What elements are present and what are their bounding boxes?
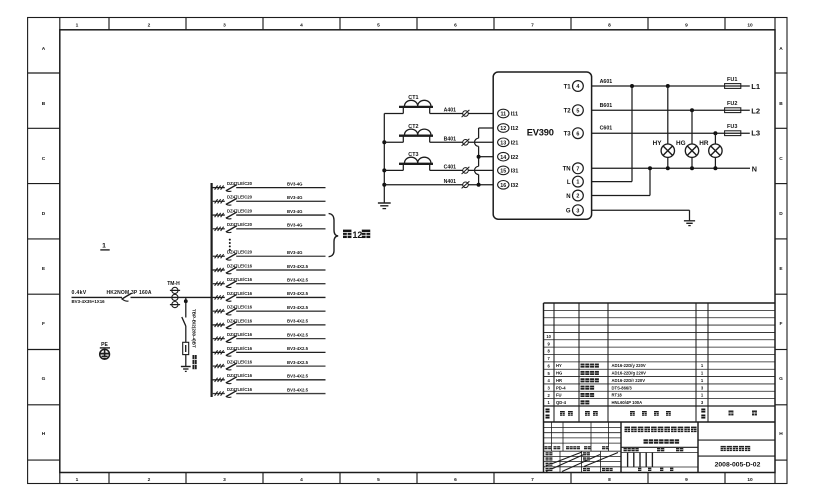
breaker QF4 blade bbox=[226, 226, 237, 233]
label arrester type (rotated) bbox=[192, 309, 197, 369]
svg-text:H: H bbox=[42, 431, 46, 437]
ground CT bus bbox=[378, 203, 391, 209]
wire feeder row 13 bbox=[212, 365, 326, 367]
pin 15 I31 bbox=[498, 166, 519, 175]
fuse FU2 bbox=[725, 101, 741, 113]
svg-text:I32: I32 bbox=[511, 183, 519, 189]
label cable row 7 bbox=[287, 278, 309, 283]
breaker QF5 blade bbox=[226, 253, 237, 260]
label N out bbox=[752, 164, 757, 173]
svg-text:4: 4 bbox=[576, 84, 579, 90]
svg-text:A: A bbox=[779, 46, 783, 52]
current transformer CT1 winding bbox=[405, 100, 431, 106]
svg-text:12: 12 bbox=[500, 126, 506, 132]
svg-text:9: 9 bbox=[685, 477, 688, 483]
svg-text:FU2: FU2 bbox=[727, 101, 737, 107]
svg-text:A: A bbox=[42, 46, 46, 52]
svg-text:DZ47LE/C16: DZ47LE/C16 bbox=[227, 305, 253, 310]
label breaker QF10 bbox=[227, 318, 253, 323]
svg-text:DZ47LE/C16: DZ47LE/C16 bbox=[227, 291, 253, 296]
svg-text:3: 3 bbox=[576, 208, 579, 214]
svg-text:8: 8 bbox=[608, 477, 611, 483]
wire CT common bus left bbox=[383, 114, 385, 203]
label cable row 14 bbox=[287, 374, 309, 379]
breaker QF15 blade bbox=[226, 391, 237, 398]
svg-text:DZ47LE/C16: DZ47LE/C16 bbox=[227, 318, 253, 323]
revision header tiny text bbox=[545, 446, 609, 449]
label C401 bbox=[444, 165, 457, 171]
node arrester tap bbox=[184, 299, 188, 303]
svg-text:3: 3 bbox=[223, 477, 226, 483]
svg-text:DZ47LE/C20: DZ47LE/C20 bbox=[227, 250, 253, 255]
svg-text:HG: HG bbox=[556, 371, 562, 376]
label breaker QF8 bbox=[227, 291, 253, 296]
label incoming cable bbox=[72, 299, 106, 304]
node return-N401 bbox=[477, 183, 481, 187]
label breaker QF4 bbox=[227, 222, 253, 227]
pin 4 T1 bbox=[564, 81, 584, 92]
breaker QF13 blade bbox=[226, 363, 237, 370]
svg-text:C601: C601 bbox=[600, 125, 613, 131]
node lamp HR bottom bbox=[713, 166, 717, 170]
stage mark tiny labels bbox=[624, 448, 684, 471]
svg-text:2008-005-D-02: 2008-005-D-02 bbox=[715, 461, 761, 468]
breaker QF7 blade bbox=[226, 281, 237, 288]
breaker QF6 blade bbox=[226, 267, 237, 274]
svg-text:15: 15 bbox=[500, 169, 506, 175]
wire lamp HG drop bbox=[691, 110, 693, 144]
breaker QF2 blade bbox=[226, 198, 237, 205]
svg-text:D: D bbox=[779, 211, 783, 217]
svg-text:BV3-4X2.5: BV3-4X2.5 bbox=[287, 360, 309, 365]
frame zone numbers bbox=[76, 22, 753, 483]
wire feeder row 15 bbox=[212, 393, 326, 395]
label HY bbox=[653, 140, 663, 147]
label breaker QF9 bbox=[227, 305, 253, 310]
svg-text:FU: FU bbox=[556, 393, 562, 398]
svg-text:G: G bbox=[779, 376, 783, 382]
label EV390 bbox=[527, 127, 554, 137]
svg-text:BV3-4G: BV3-4G bbox=[287, 223, 303, 228]
meter IC U1 EV390 outline bbox=[493, 72, 591, 219]
BOM row lines bbox=[544, 310, 776, 422]
pin 12 I12 bbox=[498, 124, 519, 133]
svg-text:N: N bbox=[752, 164, 757, 173]
label L2 bbox=[751, 106, 760, 115]
node return-I22 bbox=[477, 155, 481, 159]
svg-text:BV3-4X2.5: BV3-4X2.5 bbox=[287, 278, 309, 283]
current transformer CT2 winding bbox=[405, 129, 431, 135]
node bus-N bbox=[382, 183, 386, 187]
svg-text:CT1: CT1 bbox=[408, 95, 418, 101]
svg-text:T2: T2 bbox=[564, 109, 572, 115]
svg-text:2: 2 bbox=[576, 194, 579, 200]
svg-text:CT2: CT2 bbox=[408, 124, 418, 130]
label meter TM-H bbox=[167, 281, 180, 287]
svg-text:DZ47LE/C20: DZ47LE/C20 bbox=[227, 195, 253, 200]
stage mark cells bbox=[621, 440, 775, 467]
svg-text:1: 1 bbox=[576, 180, 579, 186]
svg-text:14: 14 bbox=[500, 155, 506, 161]
svg-text:F: F bbox=[780, 321, 783, 327]
label breaker QF5 bbox=[227, 250, 253, 255]
current transformer CT3 primary bar bbox=[399, 164, 433, 171]
svg-text:10: 10 bbox=[546, 334, 551, 339]
wire lamp HY to N bbox=[667, 157, 669, 168]
title block outline bbox=[544, 303, 776, 473]
tick marks row 6 bbox=[215, 268, 224, 272]
terminal A401 bbox=[462, 110, 470, 117]
svg-text:6: 6 bbox=[576, 131, 579, 137]
svg-text:DZ47LE/C20: DZ47LE/C20 bbox=[227, 181, 253, 186]
svg-text:G: G bbox=[566, 209, 571, 215]
svg-text:EV390: EV390 bbox=[527, 127, 554, 137]
svg-text:7: 7 bbox=[531, 22, 534, 28]
pin 16 I32 bbox=[498, 181, 519, 190]
svg-text:10: 10 bbox=[747, 477, 753, 483]
svg-text:N: N bbox=[566, 194, 570, 200]
label L3 bbox=[751, 129, 760, 138]
wire feeder row 11 bbox=[212, 338, 326, 340]
label cable row 5 bbox=[287, 250, 303, 255]
pin 5 T2 bbox=[564, 105, 584, 116]
breaker QF11 blade bbox=[226, 336, 237, 343]
svg-text:N401: N401 bbox=[444, 179, 457, 185]
svg-text:DZ47LE/C20: DZ47LE/C20 bbox=[227, 222, 253, 227]
BOM row 3 bbox=[556, 385, 704, 390]
svg-text:BV3-4G: BV3-4G bbox=[287, 195, 303, 200]
svg-text:AD16-22D/r 220V: AD16-22D/r 220V bbox=[612, 378, 646, 383]
svg-text:DZ47LE/C16: DZ47LE/C16 bbox=[227, 332, 253, 337]
svg-text:3: 3 bbox=[223, 22, 226, 28]
wire PE bar bbox=[100, 347, 110, 349]
svg-text:DZ47LE/C16: DZ47LE/C16 bbox=[227, 277, 253, 282]
svg-text:F: F bbox=[42, 321, 45, 327]
tick marks row 15 bbox=[215, 391, 224, 395]
wire N pin to neutral bbox=[592, 168, 650, 195]
breaker QF9 blade bbox=[226, 308, 237, 315]
svg-text:C: C bbox=[42, 156, 46, 162]
wire phase C line bbox=[384, 169, 493, 171]
terminal N401 bbox=[462, 181, 470, 188]
svg-text:T1: T1 bbox=[564, 84, 572, 90]
svg-text:BV3-4X2.5: BV3-4X2.5 bbox=[287, 305, 309, 310]
BOM header bbox=[546, 409, 757, 419]
svg-text:BV3-4X2.5: BV3-4X2.5 bbox=[287, 264, 309, 269]
svg-text:L3: L3 bbox=[751, 129, 760, 138]
svg-text:BV3-4X2.5: BV3-4X2.5 bbox=[287, 319, 309, 324]
node lamp HG top bbox=[690, 108, 694, 112]
svg-text:5: 5 bbox=[576, 108, 579, 114]
svg-text:5: 5 bbox=[377, 22, 380, 28]
label incoming 0.4kV bbox=[72, 290, 87, 296]
signature slashes bbox=[546, 452, 618, 472]
svg-text:9: 9 bbox=[685, 22, 688, 28]
svg-text:I21: I21 bbox=[511, 141, 519, 147]
svg-text:12: 12 bbox=[353, 230, 363, 240]
pin 1 L bbox=[567, 176, 583, 187]
label cable row 8 bbox=[287, 291, 309, 296]
svg-text:BV3-4X2.5: BV3-4X2.5 bbox=[287, 291, 309, 296]
svg-text:B601: B601 bbox=[600, 103, 613, 109]
label cable row 10 bbox=[287, 319, 309, 324]
svg-text:2: 2 bbox=[148, 477, 151, 483]
label cable row 9 bbox=[287, 305, 309, 310]
node lamp HG bottom bbox=[690, 166, 694, 170]
svg-text:BV3-4G: BV3-4G bbox=[287, 209, 303, 214]
wire feeder row 5 bbox=[212, 255, 326, 257]
label B601 bbox=[600, 103, 613, 109]
wire feeder row 2 bbox=[212, 200, 326, 202]
node bus-B bbox=[382, 140, 386, 144]
wire feeder row 1 bbox=[212, 187, 326, 189]
wire feeder row 14 bbox=[212, 379, 326, 381]
label cable row 1 bbox=[287, 181, 303, 186]
label HR bbox=[699, 140, 709, 147]
wire feeder row 8 bbox=[212, 296, 326, 298]
svg-text:AD16-22D/y 220V: AD16-22D/y 220V bbox=[612, 363, 646, 368]
node lamp HR top bbox=[713, 131, 717, 135]
wire hop over C401 bbox=[475, 166, 479, 174]
wire feeder row 12 bbox=[212, 351, 326, 353]
breaker QF12 blade bbox=[226, 349, 237, 356]
svg-text:A601: A601 bbox=[600, 79, 613, 85]
label cable row 4 bbox=[287, 223, 303, 228]
svg-text:DZ47LE/C20: DZ47LE/C20 bbox=[227, 208, 253, 213]
label gong-12-lu bbox=[343, 230, 370, 241]
node bus-C bbox=[382, 168, 386, 172]
label company name bbox=[625, 427, 697, 433]
lamp HY bbox=[661, 144, 674, 157]
svg-text:0.4kV: 0.4kV bbox=[72, 290, 87, 296]
svg-text:AD16-22D/g 220V: AD16-22D/g 220V bbox=[612, 371, 647, 376]
label drawing title bbox=[721, 446, 751, 451]
svg-text:RT18: RT18 bbox=[612, 393, 623, 398]
wire G pin bbox=[592, 210, 690, 220]
wire stub pin12 bbox=[479, 127, 494, 129]
label cable row 12 bbox=[287, 346, 309, 351]
switch arrester blade bbox=[182, 317, 186, 326]
svg-text:TM-H: TM-H bbox=[167, 281, 180, 287]
label drawing number bbox=[715, 461, 761, 468]
wire phase A line bbox=[384, 113, 493, 115]
svg-text:TN: TN bbox=[563, 167, 571, 173]
label breaker QF2 bbox=[227, 195, 253, 200]
lamp HG bbox=[685, 144, 698, 157]
signature tiny text bbox=[546, 452, 613, 471]
wire L pin to A601 bbox=[592, 86, 632, 182]
surge arrester FV box bbox=[183, 342, 189, 354]
svg-text:HG: HG bbox=[676, 140, 686, 147]
label cable row 2 bbox=[287, 195, 303, 200]
terminal C401 bbox=[462, 167, 470, 174]
pin 14 I22 bbox=[498, 152, 519, 161]
breaker QF3 blade bbox=[226, 212, 237, 219]
svg-text:T3: T3 bbox=[564, 132, 572, 138]
svg-text:1: 1 bbox=[102, 243, 106, 250]
wire feeder row 3 bbox=[212, 214, 326, 216]
svg-text:CT3: CT3 bbox=[408, 152, 418, 158]
label CT3 bbox=[408, 152, 418, 158]
svg-text:HR: HR bbox=[556, 378, 562, 383]
svg-text:HY: HY bbox=[653, 140, 663, 147]
svg-text:DZ47LE/C16: DZ47LE/C16 bbox=[227, 387, 253, 392]
breaker QF10 blade bbox=[226, 322, 237, 329]
svg-text:HNL60/4P 100A: HNL60/4P 100A bbox=[612, 400, 643, 405]
ground arrester bbox=[181, 367, 191, 372]
pin 7 TN bbox=[563, 163, 584, 174]
svg-text:PE: PE bbox=[101, 342, 108, 348]
svg-text:4: 4 bbox=[300, 477, 303, 483]
tick marks row 1 bbox=[215, 186, 224, 190]
wire feeder row 6 bbox=[212, 269, 326, 271]
svg-text:I22: I22 bbox=[511, 155, 519, 161]
svg-text:13: 13 bbox=[500, 140, 506, 146]
label breaker QF14 bbox=[227, 373, 253, 378]
BOM row 2 bbox=[556, 393, 704, 398]
svg-text:TBP-B/2(280-4)BT: TBP-B/2(280-4)BT bbox=[192, 309, 197, 348]
fuse FU1 bbox=[725, 77, 741, 89]
svg-text:11: 11 bbox=[500, 112, 506, 118]
label L1 bbox=[751, 82, 761, 91]
svg-text:G: G bbox=[42, 376, 46, 382]
label breaker QF7 bbox=[227, 277, 253, 282]
BOM row 5 bbox=[556, 371, 704, 376]
current transformer CT1 primary bar bbox=[399, 107, 433, 114]
wire feeder row 7 bbox=[212, 283, 326, 285]
tick marks row 8 bbox=[215, 295, 224, 299]
label CT1 bbox=[408, 95, 418, 101]
wire feeder row 10 bbox=[212, 324, 326, 326]
svg-text:BV3-4X2.5: BV3-4X2.5 bbox=[287, 387, 309, 392]
label breaker QF1 bbox=[227, 181, 253, 186]
tick marks row 7 bbox=[215, 282, 224, 286]
svg-text:5: 5 bbox=[377, 477, 380, 483]
tick marks row 10 bbox=[215, 323, 224, 327]
BOM row 6 bbox=[556, 363, 704, 368]
wire feeder row 4 bbox=[212, 228, 326, 230]
svg-text:8: 8 bbox=[608, 22, 611, 28]
wire lamp HR drop bbox=[714, 133, 716, 144]
svg-text:PD-4: PD-4 bbox=[556, 385, 566, 390]
meter TM-H circles bbox=[170, 287, 180, 307]
wire arrester branch lower bbox=[185, 355, 187, 367]
wire hop over B401 bbox=[475, 138, 479, 146]
BOM row 1 bbox=[556, 400, 704, 405]
wire T1 A601 bbox=[592, 85, 750, 87]
svg-text:C401: C401 bbox=[444, 165, 457, 171]
label cable row 15 bbox=[287, 387, 309, 392]
svg-text:C: C bbox=[779, 156, 783, 162]
label B401 bbox=[444, 136, 457, 142]
label breaker QF12 bbox=[227, 346, 253, 351]
wire neutral N401 line bbox=[384, 184, 493, 186]
svg-text:B: B bbox=[779, 101, 783, 107]
label sheet ref 1 bbox=[100, 243, 109, 250]
node N-neutral bbox=[648, 166, 652, 170]
svg-text:BV3-4X2.5: BV3-4X2.5 bbox=[287, 374, 309, 379]
label N401 bbox=[444, 179, 457, 185]
svg-text:4: 4 bbox=[300, 22, 303, 28]
BOM column lines bbox=[554, 303, 708, 422]
svg-text:BV3-4X2.5: BV3-4X2.5 bbox=[287, 332, 309, 337]
svg-text:HK2NOM 3P 160A: HK2NOM 3P 160A bbox=[107, 290, 152, 296]
label A401 bbox=[444, 108, 457, 114]
svg-text:HY: HY bbox=[556, 363, 562, 368]
label PE bbox=[101, 342, 108, 348]
wire incoming main bbox=[72, 296, 212, 298]
current transformer CT2 primary bar bbox=[399, 136, 433, 143]
svg-text:BV3-4X2.5: BV3-4X2.5 bbox=[287, 346, 309, 351]
svg-text:6: 6 bbox=[454, 477, 457, 483]
BOM row 4 bbox=[556, 378, 704, 383]
tick marks row 11 bbox=[215, 337, 224, 341]
pin 6 T3 bbox=[564, 128, 584, 139]
wire T3 C601 bbox=[592, 132, 750, 134]
tick marks row 2 bbox=[215, 199, 224, 203]
wire neutral TN bbox=[592, 167, 750, 169]
svg-text:L1: L1 bbox=[751, 82, 761, 91]
svg-text:7: 7 bbox=[531, 477, 534, 483]
current transformer CT3 winding bbox=[405, 157, 431, 163]
wire arrester branch mid bbox=[185, 326, 187, 342]
wire lamp HR to N bbox=[714, 157, 716, 168]
frame zone letters bbox=[42, 46, 784, 437]
svg-text:1: 1 bbox=[76, 22, 79, 28]
svg-text:L2: L2 bbox=[751, 106, 760, 115]
label cable row 11 bbox=[287, 332, 309, 337]
label cable row 3 bbox=[287, 209, 303, 214]
label breaker QF6 bbox=[227, 263, 253, 268]
svg-text:FU1: FU1 bbox=[727, 77, 737, 83]
tick marks row 5 bbox=[215, 254, 224, 258]
label breaker QF13 bbox=[227, 359, 253, 364]
busbar vertical bbox=[211, 183, 213, 397]
svg-text:DZ47LE/C16: DZ47LE/C16 bbox=[227, 263, 253, 268]
svg-text:DZ47LE/C16: DZ47LE/C16 bbox=[227, 373, 253, 378]
revision and signature grid bbox=[544, 422, 622, 473]
border inner frame bbox=[60, 30, 775, 473]
tick marks row 4 bbox=[215, 227, 224, 231]
pin 3 G bbox=[566, 205, 583, 216]
wire feeder row 9 bbox=[212, 310, 326, 312]
tick marks row 14 bbox=[215, 378, 224, 382]
svg-text:DTS-866/3: DTS-866/3 bbox=[612, 385, 633, 390]
wire stub pin14 bbox=[479, 156, 494, 158]
svg-text:FU3: FU3 bbox=[727, 124, 737, 130]
switch QS blade bbox=[122, 293, 132, 301]
node L-A601 bbox=[630, 84, 634, 88]
label switch HK2NOM 3P 160A bbox=[107, 290, 152, 296]
breaker QF1 blade bbox=[226, 185, 237, 192]
svg-text:16: 16 bbox=[500, 183, 506, 189]
label cable row 13 bbox=[287, 360, 309, 365]
ellipsis omitted rows bbox=[229, 239, 231, 251]
svg-text:10: 10 bbox=[747, 22, 753, 28]
svg-text:L: L bbox=[567, 180, 571, 186]
label A601 bbox=[600, 79, 613, 85]
terminal B401 bbox=[462, 139, 470, 146]
wire lamp HY drop bbox=[667, 86, 669, 144]
pin 13 I21 bbox=[498, 138, 519, 147]
title block main dividers bbox=[621, 422, 698, 473]
label cable row 6 bbox=[287, 264, 309, 269]
wire arrester branch upper bbox=[185, 297, 187, 317]
svg-text:B401: B401 bbox=[444, 136, 457, 142]
node lamp HY bottom bbox=[666, 166, 670, 170]
svg-text:1: 1 bbox=[76, 477, 79, 483]
pin 2 N bbox=[566, 190, 583, 201]
